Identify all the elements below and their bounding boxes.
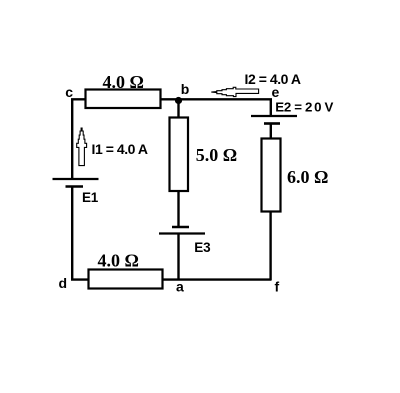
svg-text:f: f xyxy=(275,279,280,295)
svg-text:E1: E1 xyxy=(82,190,99,205)
svg-text:4.0 Ω: 4.0 Ω xyxy=(103,72,144,92)
battery E3 long plate xyxy=(159,232,205,234)
svg-text:a: a xyxy=(176,279,184,295)
battery E1 short plate xyxy=(66,185,84,188)
svg-text:c: c xyxy=(65,84,73,100)
current arrow I2 (points left, above wire b-e) xyxy=(211,87,258,96)
resistor 5.0Ω middle (between b and E3) xyxy=(170,118,189,192)
wire E3 to bottom rail xyxy=(177,234,179,281)
wire E2 to R4 top xyxy=(270,124,272,139)
svg-text:5.0 Ω: 5.0 Ω xyxy=(196,145,237,165)
battery E1 long plate xyxy=(53,178,99,180)
wire b to R3 top xyxy=(177,100,179,118)
resistor 4.0Ω top (between c and b) xyxy=(86,90,161,109)
wire R3 bottom to E3 xyxy=(177,191,179,227)
current arrow I1 (points up, right of left wire) xyxy=(77,128,87,166)
wire c corner: top-left horizontal from c down-left corner to R1 left xyxy=(72,99,85,180)
resistor 6.0Ω right (between E2 and f) xyxy=(262,139,281,212)
svg-text:I1 = 4.0 A: I1 = 4.0 A xyxy=(92,141,148,157)
svg-text:b: b xyxy=(181,81,190,97)
wire R4 bottom to f corner xyxy=(269,212,271,281)
battery E2 long plate xyxy=(251,115,297,117)
svg-text:E2 = 20 V: E2 = 20 V xyxy=(275,99,333,114)
svg-text:E3: E3 xyxy=(194,240,211,255)
svg-text:4.0 Ω: 4.0 Ω xyxy=(98,250,139,270)
wire a-f: bottom rail from R2 right to f corner xyxy=(163,278,272,280)
node b junction dot xyxy=(175,97,182,104)
svg-text:d: d xyxy=(59,275,68,291)
svg-text:6.0 Ω: 6.0 Ω xyxy=(287,167,328,187)
battery E3 short plate xyxy=(172,226,189,229)
wire E1 to d corner xyxy=(72,187,88,280)
resistor 4.0Ω bottom (between d and a) xyxy=(89,270,163,289)
battery E2 short plate xyxy=(264,122,280,125)
wire b-e: top rail from R1 right to e corner, then down to E2 xyxy=(161,99,271,116)
svg-text:I2 = 4.0 A: I2 = 4.0 A xyxy=(245,71,301,87)
